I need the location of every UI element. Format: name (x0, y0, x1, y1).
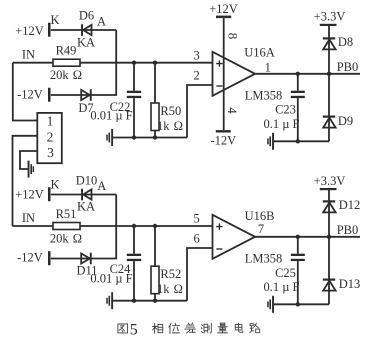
svg-text:-12V: -12V (17, 88, 43, 102)
node dot C25 top (296, 235, 300, 239)
svg-text:LM358: LM358 (245, 252, 283, 266)
svg-text:8: 8 (226, 33, 241, 40)
wire to op-amp pin 6 (187, 248, 213, 301)
wire left vertical to connector pin 1 (13, 63, 37, 121)
wire IN to R51 (13, 225, 54, 227)
svg-text:IN: IN (22, 48, 35, 62)
svg-text:A: A (97, 179, 106, 193)
ground (top channel, left of C22) (106, 129, 113, 146)
wire PB0 node through D9 to ground (328, 74, 330, 142)
svg-text:1: 1 (265, 60, 271, 74)
svg-text:D9: D9 (338, 114, 353, 128)
diode D11 (81, 253, 92, 265)
node dot C22 bottom (132, 135, 136, 139)
ground (right of LM358, C23) (267, 133, 274, 150)
svg-text:-12V: -12V (17, 251, 43, 265)
svg-text:0.1 µ F: 0.1 µ F (263, 117, 299, 131)
caption char DIAN (235, 323, 243, 332)
svg-text:D12: D12 (339, 198, 361, 212)
svg-text:A: A (97, 15, 106, 29)
svg-text:D8: D8 (338, 35, 353, 49)
svg-text:1k Ω: 1k Ω (157, 119, 183, 133)
wire to op-amp pin 2 (187, 85, 213, 138)
svg-text:20k Ω: 20k Ω (50, 68, 82, 82)
diode D13 (323, 279, 336, 291)
ground wire C22/R50 bottoms (113, 137, 187, 139)
op-amp U16B (213, 215, 256, 259)
wire +3.3V through D12 to PB0 node (328, 190, 330, 237)
svg-text:C25: C25 (275, 266, 296, 280)
diode D6 (81, 24, 91, 36)
capacitor C23 (291, 74, 305, 142)
op-amp U16A (213, 52, 256, 96)
diode D8 (323, 37, 336, 49)
svg-text:IN: IN (22, 211, 35, 225)
wire connector pin 2 down to lower IN line (13, 136, 38, 226)
svg-text:K: K (50, 13, 59, 27)
svg-text:20k Ω: 20k Ω (50, 231, 82, 245)
power rail pin8/pin4 vertical (223, 18, 225, 130)
diode D7 (81, 89, 92, 101)
svg-text:R52: R52 (160, 267, 181, 281)
svg-text:R49: R49 (56, 44, 77, 58)
output wire pin7 to PB0 (255, 236, 360, 238)
svg-text:KA: KA (77, 35, 95, 49)
caption char TU (figure) (118, 324, 128, 333)
svg-text:D10: D10 (76, 174, 98, 188)
resistor R51 (53, 223, 80, 230)
-12V supply bar (bottom left) (48, 251, 51, 265)
ground wire C23/D9 (274, 140, 329, 142)
wire R49 to op-amp pin3 (80, 62, 213, 64)
wire +12V bar to D10 (51, 194, 116, 196)
svg-text:1: 1 (47, 113, 54, 128)
node dot R52 bottom (153, 299, 157, 303)
diode D10 (81, 189, 91, 201)
svg-text:LM358: LM358 (245, 89, 283, 103)
caption char WEI (169, 323, 180, 333)
connector J1 (37, 113, 62, 163)
svg-text:2: 2 (193, 68, 199, 82)
svg-text:D6: D6 (79, 9, 94, 23)
svg-text:1k Ω: 1k Ω (157, 282, 183, 296)
svg-text:R50: R50 (160, 104, 181, 118)
resistor R49 (53, 59, 80, 66)
diode D12 (323, 200, 336, 212)
svg-text:K: K (50, 178, 59, 192)
svg-text:+12V: +12V (15, 24, 44, 38)
+3.3V bar (top right) (320, 24, 337, 26)
svg-text:+12V: +12V (209, 2, 238, 16)
caption char CHA (185, 323, 196, 333)
svg-text:U16A: U16A (244, 46, 275, 60)
svg-text:D13: D13 (339, 277, 361, 291)
ground wire C24/R52 bottoms (113, 300, 187, 302)
wire connector pin 3 to ground (20, 151, 37, 169)
svg-text:0.01 µ F: 0.01 µ F (90, 272, 132, 286)
resistor R52 (151, 226, 159, 301)
capacitor C22 (127, 63, 141, 138)
caption char XIANG (152, 323, 162, 333)
svg-text:3: 3 (193, 49, 199, 63)
node dot R50 bottom (153, 135, 157, 139)
svg-text:5: 5 (193, 212, 199, 226)
svg-text:PB0: PB0 (337, 60, 359, 74)
wire +3.3V through D8 to PB0 node (328, 26, 330, 74)
capacitor C24 (127, 226, 141, 301)
diode D9 (323, 116, 336, 128)
ground (connector pin 3) (28, 161, 34, 178)
node dot C23 bottom (296, 139, 300, 143)
svg-text:0.1 µ F: 0.1 µ F (263, 280, 299, 294)
plus sign U16B (216, 223, 222, 229)
minus sign U16B (216, 248, 222, 250)
wire R51 to op-amp pin5 (80, 225, 213, 227)
wire D10 anode down to D11 cathode and -12V bar (51, 195, 116, 259)
svg-text:4: 4 (225, 107, 240, 114)
resistor R50 (151, 63, 159, 138)
svg-text:5: 5 (130, 321, 138, 338)
svg-text:6: 6 (193, 232, 199, 246)
+12V supply bar (top left) (48, 23, 51, 37)
node dot C24 bottom (132, 299, 136, 303)
svg-text:KA: KA (77, 200, 95, 214)
svg-text:+3.3V: +3.3V (314, 10, 346, 24)
ground (bottom channel, left of C24) (106, 292, 113, 309)
node dot R49-C22 (132, 61, 136, 65)
svg-text:+3.3V: +3.3V (314, 174, 346, 188)
wire PB0 node through D13 to ground (328, 237, 330, 304)
svg-text:C23: C23 (275, 103, 296, 117)
node dot R50 top (153, 61, 157, 65)
node dot D12/D13 on PB0 (327, 235, 331, 239)
+12V supply bar (bottom left) (48, 187, 51, 201)
-12V bar below op-amp (216, 130, 231, 132)
+3.3V bar (bottom right) (320, 188, 337, 190)
node dot R52 top (153, 224, 157, 228)
caption char LU (250, 323, 260, 332)
+12V bar above op-amp (216, 16, 231, 19)
wire +12V bar to D6 (51, 29, 116, 31)
svg-text:+12V: +12V (15, 188, 44, 202)
wire D6 anode down to D7 cathode and -12V bar (51, 30, 116, 95)
capacitor C25 (291, 237, 305, 304)
output wire pin1 to PB0 (255, 73, 360, 75)
plus sign U16A (216, 60, 222, 66)
svg-text:0.01 µ F: 0.01 µ F (90, 109, 132, 123)
svg-text:2: 2 (47, 130, 54, 145)
svg-text:-12V: -12V (210, 134, 236, 148)
svg-text:PB0: PB0 (337, 223, 359, 237)
ground wire C25/D13 (274, 303, 329, 305)
svg-text:R51: R51 (56, 207, 77, 221)
svg-text:3: 3 (47, 145, 54, 160)
node dot C25 bottom (296, 302, 300, 306)
node dot R51-C24 (132, 224, 136, 228)
ground (right, C25) (267, 296, 274, 313)
caption char LIANG (218, 323, 228, 333)
svg-text:7: 7 (258, 222, 264, 236)
caption char CE (201, 323, 211, 333)
node dot D8/D9 on PB0 (327, 72, 331, 76)
wire IN to R49 (13, 62, 53, 64)
node dot C23 top (296, 72, 300, 76)
svg-text:U16B: U16B (245, 209, 275, 223)
minus sign U16A (216, 85, 222, 87)
-12V supply bar (top left) (48, 88, 51, 102)
